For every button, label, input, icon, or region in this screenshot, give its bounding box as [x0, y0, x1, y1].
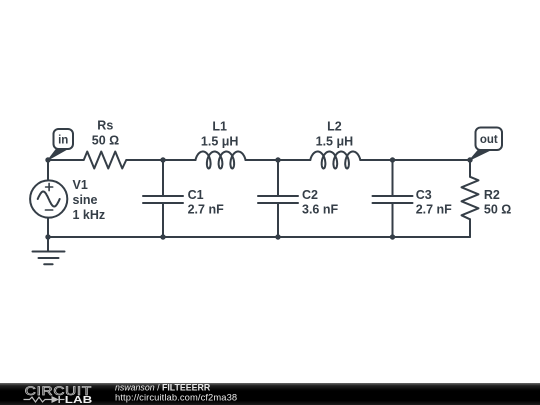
svg-text:C2: C2 [302, 188, 318, 202]
svg-text:R2: R2 [484, 188, 500, 202]
svg-text:Rs: Rs [97, 118, 113, 132]
svg-text:2.7 nF: 2.7 nF [188, 202, 224, 216]
svg-text:V1: V1 [73, 178, 88, 192]
svg-text:1.5 μH: 1.5 μH [316, 134, 354, 148]
svg-text:50 Ω: 50 Ω [484, 202, 511, 216]
svg-text:C1: C1 [188, 188, 204, 202]
svg-text:L1: L1 [212, 119, 227, 133]
svg-text:50 Ω: 50 Ω [92, 133, 119, 147]
svg-text:out: out [480, 134, 498, 146]
svg-text:LAB: LAB [65, 393, 93, 405]
svg-text:in: in [58, 135, 68, 147]
svg-text:1.5 μH: 1.5 μH [201, 134, 239, 148]
svg-text:http://circuitlab.com/cf2ma38: http://circuitlab.com/cf2ma38 [115, 391, 237, 402]
svg-text:L2: L2 [327, 119, 342, 133]
svg-text:sine: sine [73, 193, 98, 207]
svg-text:3.6 nF: 3.6 nF [302, 202, 338, 216]
svg-text:1 kHz: 1 kHz [73, 208, 106, 222]
svg-text:2.7 nF: 2.7 nF [416, 202, 452, 216]
svg-text:C3: C3 [416, 188, 432, 202]
